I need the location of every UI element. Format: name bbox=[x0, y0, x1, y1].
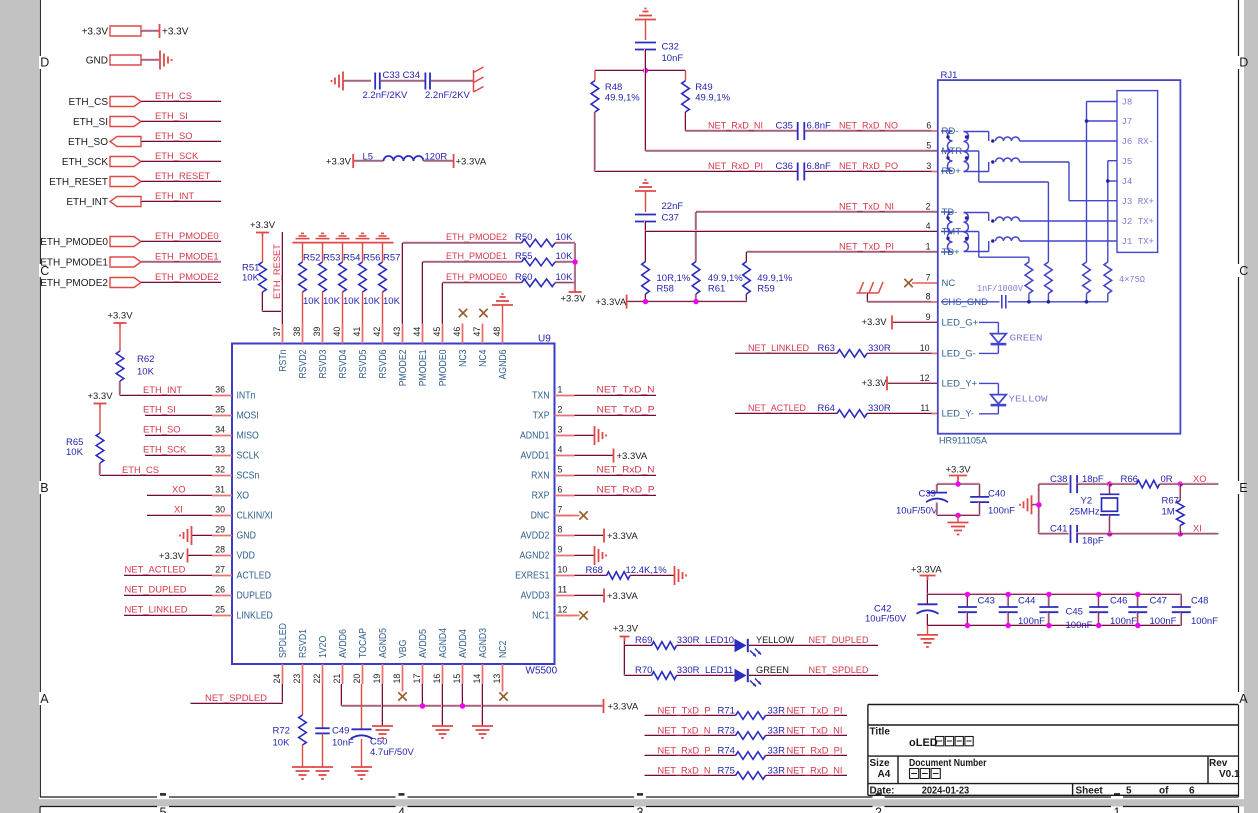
svg-text:J4: J4 bbox=[1122, 177, 1133, 187]
junction C47 bottom bbox=[1135, 623, 1140, 628]
svg-text:C36: C36 bbox=[776, 161, 793, 172]
ground above R57 bbox=[376, 233, 390, 238]
resistor R53 bbox=[319, 262, 327, 292]
resistor R64 bbox=[837, 410, 867, 418]
wire NET_RxD_PI bbox=[595, 171, 797, 172]
svg-text:5: 5 bbox=[160, 806, 167, 813]
svg-text:10K: 10K bbox=[556, 272, 574, 283]
svg-text:EXRES1: EXRES1 bbox=[515, 571, 550, 582]
svg-text:1M: 1M bbox=[1162, 507, 1175, 518]
wire R70 to LED11 bbox=[677, 675, 735, 676]
svg-text:11: 11 bbox=[920, 403, 929, 413]
sheet bottom border bbox=[885, 796, 1112, 798]
svg-text:R63: R63 bbox=[818, 343, 835, 354]
wire to J6 bbox=[1020, 140, 1118, 142]
svg-text:NET_TxD_PI: NET_TxD_PI bbox=[787, 705, 843, 716]
wire LED_Y+ bbox=[888, 382, 938, 383]
svg-text:33: 33 bbox=[215, 445, 225, 456]
R72 bottom lead bbox=[302, 745, 304, 767]
svg-text:PMODE1: PMODE1 bbox=[418, 349, 429, 386]
R56 top lead bbox=[362, 243, 364, 262]
LED LED11 bbox=[735, 669, 762, 687]
wire RX tap to resistor bbox=[1047, 182, 1049, 262]
pin 1 stub bbox=[555, 395, 575, 397]
wire to J2 bbox=[1020, 220, 1118, 222]
choke RX lower bbox=[996, 158, 1020, 162]
svg-text:AGND3: AGND3 bbox=[478, 628, 489, 658]
svg-text:1nF/1000V: 1nF/1000V bbox=[977, 284, 1024, 294]
no-connect RJ1 pin7 bbox=[904, 279, 912, 287]
sheet border right bbox=[1238, 705, 1240, 797]
svg-text:25: 25 bbox=[215, 605, 225, 616]
svg-text:HR911105A: HR911105A bbox=[939, 436, 988, 447]
wire TD- into winding bbox=[941, 211, 953, 213]
C45 bottom lead bbox=[1048, 612, 1049, 625]
svg-text:+3.3VA: +3.3VA bbox=[608, 702, 639, 713]
svg-text:LED10: LED10 bbox=[705, 635, 734, 646]
pin 43 stub bbox=[402, 324, 404, 344]
ground under R72 bbox=[292, 767, 313, 779]
svg-text:23: 23 bbox=[292, 674, 303, 684]
ground above C37 bbox=[635, 180, 656, 191]
wire R49 down bbox=[685, 112, 686, 131]
wire NET_SPDLED bbox=[191, 703, 283, 704]
port ETH_SI bbox=[110, 117, 141, 127]
wire TX tap down bbox=[978, 232, 980, 258]
pin 36 stub bbox=[212, 395, 232, 397]
svg-text:PMODE2: PMODE2 bbox=[398, 350, 409, 387]
sheet border right bbox=[1238, 69, 1240, 264]
wire LED YELLOW anode bbox=[979, 382, 998, 384]
wire AVDD4 down bbox=[462, 684, 463, 706]
power bbox=[453, 154, 455, 168]
junction R61 rail bbox=[693, 299, 698, 304]
svg-text:NET_ACTLED: NET_ACTLED bbox=[125, 564, 186, 575]
ground above C32 bbox=[635, 9, 656, 20]
wire R55 to +3.3V bbox=[555, 261, 575, 262]
wire R59 up bbox=[746, 252, 747, 262]
C49 bottom lead bbox=[322, 734, 324, 767]
wire RX+ route bbox=[1020, 161, 1070, 163]
svg-text:C32: C32 bbox=[662, 42, 679, 53]
svg-text:C37: C37 bbox=[662, 213, 679, 224]
junction C43 bottom bbox=[965, 623, 970, 628]
wire to TX choke upper bbox=[988, 213, 990, 222]
R54 bottom lead bbox=[342, 292, 344, 324]
svg-text:R49: R49 bbox=[695, 82, 712, 93]
wire R51 to RSTn bbox=[263, 311, 283, 312]
svg-text:R75: R75 bbox=[718, 766, 735, 777]
svg-text:RXN: RXN bbox=[531, 471, 549, 482]
svg-text:+3.3V: +3.3V bbox=[82, 27, 109, 38]
wire ETH_INT bbox=[141, 201, 221, 202]
resistor 75R bbox=[1083, 262, 1091, 294]
wire SPDLED down bbox=[282, 684, 283, 704]
svg-text:SCSn: SCSn bbox=[237, 471, 260, 482]
svg-text:NET_RxD_NO: NET_RxD_NO bbox=[839, 120, 898, 131]
svg-text:R74: R74 bbox=[718, 746, 735, 757]
svg-text:C46: C46 bbox=[1110, 596, 1127, 607]
svg-text:TXN: TXN bbox=[532, 391, 549, 402]
R48 top lead bbox=[594, 71, 596, 81]
R72 top lead bbox=[302, 684, 304, 715]
wire RD+ into winding bbox=[941, 170, 953, 172]
svg-text:AVDD2: AVDD2 bbox=[521, 531, 550, 542]
pin 8 stub bbox=[555, 535, 575, 537]
pin 19 stub bbox=[382, 664, 384, 684]
wire ETH_SO bbox=[141, 141, 221, 142]
C48 bottom lead bbox=[1180, 612, 1181, 625]
wire NET_RxD_PO bbox=[805, 171, 932, 172]
svg-text:GND: GND bbox=[86, 56, 108, 67]
C44 top lead bbox=[1007, 594, 1008, 606]
resistor 75R bbox=[1045, 262, 1053, 294]
svg-text:R62: R62 bbox=[137, 354, 154, 365]
svg-text:2: 2 bbox=[875, 806, 882, 813]
pin stub bbox=[932, 352, 938, 354]
svg-text:ETH_PMODE1: ETH_PMODE1 bbox=[446, 250, 507, 261]
capacitor C38 bbox=[1071, 475, 1078, 493]
svg-text:8: 8 bbox=[926, 292, 931, 302]
pin 21 stub bbox=[342, 664, 344, 684]
resistor R48 bbox=[591, 81, 599, 112]
svg-text:LINKLED: LINKLED bbox=[237, 611, 273, 622]
pin 46 stub bbox=[462, 324, 464, 344]
ground right of GND port bbox=[160, 51, 172, 70]
wire NET_RxD_NI bbox=[686, 130, 798, 131]
wire ETH_SCK bbox=[145, 455, 212, 456]
svg-text:C38: C38 bbox=[1050, 474, 1067, 485]
svg-text:100nF: 100nF bbox=[1066, 620, 1093, 631]
svg-text:ETH_INT: ETH_INT bbox=[155, 190, 194, 201]
svg-text:4: 4 bbox=[398, 806, 405, 813]
pin 25 stub bbox=[212, 615, 232, 617]
resistor R52 bbox=[299, 262, 307, 292]
svg-text:DUPLED: DUPLED bbox=[237, 591, 272, 602]
svg-text:MISO: MISO bbox=[237, 431, 260, 442]
svg-text:15: 15 bbox=[452, 674, 463, 684]
ground AGND5 bbox=[372, 726, 393, 738]
port ETH_RESET bbox=[110, 177, 141, 187]
svg-text:GREEN: GREEN bbox=[1010, 333, 1043, 343]
wire LED YELLOW cathode bbox=[979, 413, 998, 415]
svg-text:NET_TxD_N: NET_TxD_N bbox=[658, 725, 711, 736]
svg-text:10K: 10K bbox=[343, 296, 361, 307]
wire LED supply vertical bbox=[624, 641, 625, 676]
svg-text:3: 3 bbox=[637, 806, 644, 813]
pin 23 stub bbox=[302, 664, 304, 684]
svg-text:ETH_SI: ETH_SI bbox=[143, 404, 176, 415]
wire ETH_PMODE0 vertical bbox=[442, 283, 443, 324]
wire R62 to INTn bbox=[119, 381, 120, 396]
junction C44 top bbox=[1006, 592, 1011, 597]
wire RX sec bottom bbox=[964, 171, 989, 173]
ground rail above R52-R57 bbox=[292, 242, 393, 244]
svg-text:Size: Size bbox=[870, 758, 890, 769]
wire AGND3 down bbox=[482, 684, 483, 726]
polarity dot bbox=[991, 239, 994, 242]
svg-text:MOSI: MOSI bbox=[237, 411, 259, 422]
svg-text:GND: GND bbox=[237, 531, 256, 542]
svg-text:ETH_PMODE2: ETH_PMODE2 bbox=[40, 278, 108, 289]
lead bbox=[997, 344, 999, 353]
sheet border right bbox=[1238, 494, 1240, 692]
junction J7 tie bbox=[1085, 119, 1089, 123]
resistor R75 bbox=[736, 772, 766, 780]
polarity dot bbox=[946, 237, 949, 240]
svg-text:32: 32 bbox=[215, 465, 225, 476]
svg-text:B: B bbox=[40, 481, 48, 495]
wire ETH_INT bbox=[120, 395, 212, 396]
svg-text:11: 11 bbox=[558, 585, 568, 596]
port ETH_SO bbox=[110, 137, 141, 147]
ground crystal bbox=[1020, 495, 1032, 514]
pin 16 stub bbox=[442, 664, 444, 684]
pin 11 stub bbox=[555, 595, 575, 597]
sheet border right bbox=[1238, 0, 1240, 56]
wire J8 bbox=[1087, 101, 1118, 103]
resistor R58 bbox=[642, 262, 650, 295]
wire ETH_PMODE1 bbox=[141, 261, 221, 262]
svg-text:RJ1: RJ1 bbox=[941, 70, 958, 81]
svg-text:NET_RxD_NI: NET_RxD_NI bbox=[787, 765, 843, 776]
AGND6 lead bbox=[502, 305, 504, 324]
op-chip U9 W5500 body bbox=[232, 344, 555, 665]
capacitor C41 bbox=[1071, 525, 1078, 543]
wire RJ1 pin4 bbox=[646, 231, 938, 232]
svg-text:R52: R52 bbox=[303, 253, 320, 264]
svg-text:LED_G-: LED_G- bbox=[942, 349, 976, 360]
resistor R66 bbox=[1137, 480, 1160, 488]
R53 bottom lead bbox=[322, 292, 324, 324]
polarity dot bbox=[965, 156, 968, 159]
junction Y2 bottom bbox=[1107, 531, 1112, 536]
svg-text:48: 48 bbox=[492, 327, 503, 337]
pin stub bbox=[932, 413, 938, 415]
pin 34 stub bbox=[212, 435, 232, 437]
svg-text:14: 14 bbox=[472, 673, 483, 683]
wire ground to crystal net bbox=[1032, 504, 1039, 505]
svg-text:6: 6 bbox=[926, 121, 931, 131]
svg-text:38: 38 bbox=[292, 327, 303, 337]
svg-text:100nF: 100nF bbox=[1018, 616, 1045, 627]
pin 27 stub bbox=[212, 575, 232, 577]
resistor R61 bbox=[692, 262, 700, 295]
resistor R65 bbox=[96, 433, 104, 463]
ground above R54 bbox=[336, 233, 350, 238]
svg-text:37: 37 bbox=[272, 327, 283, 337]
next sheet left border bbox=[39, 807, 41, 813]
capacitor C47 bbox=[1128, 607, 1147, 612]
svg-text:J1 TX+: J1 TX+ bbox=[1122, 237, 1154, 247]
svg-text:C41: C41 bbox=[1050, 524, 1067, 535]
wire C38 to R66 bbox=[1076, 483, 1109, 484]
pin 29 stub bbox=[212, 535, 232, 537]
junction R58 rail bbox=[643, 299, 648, 304]
wire RX sec top bbox=[964, 131, 989, 133]
svg-text:XI: XI bbox=[174, 504, 183, 515]
wire NET_RxD_NO bbox=[805, 130, 932, 131]
wire AGND2 bbox=[575, 555, 595, 556]
wire NET_RxD_N bbox=[575, 475, 657, 476]
polarity dot bbox=[991, 219, 994, 222]
pin 40 stub bbox=[342, 324, 344, 344]
no-connect DNC bbox=[579, 511, 587, 519]
Y2 bottom lead bbox=[1109, 515, 1110, 534]
wire TX sec bottom bbox=[964, 251, 989, 253]
wire R60 to +3.3V bbox=[555, 282, 575, 283]
no-connect NC4 bbox=[479, 309, 487, 317]
svg-text:100nF: 100nF bbox=[988, 506, 1015, 517]
svg-text:ETH_SO: ETH_SO bbox=[68, 137, 108, 148]
pin 26 stub bbox=[212, 595, 232, 597]
svg-text:10R,1%: 10R,1% bbox=[657, 273, 691, 284]
capacitor C43 bbox=[958, 607, 977, 612]
junction Y2 top bbox=[1107, 481, 1112, 486]
C42 top lead bbox=[927, 594, 928, 604]
wire EXRES1 bbox=[575, 575, 607, 576]
ground above R56 bbox=[356, 233, 370, 238]
svg-text:AVDD5: AVDD5 bbox=[418, 629, 429, 658]
svg-text:+3.3VA: +3.3VA bbox=[456, 157, 487, 168]
next sheet border bbox=[169, 806, 396, 808]
svg-text:42: 42 bbox=[372, 327, 383, 337]
svg-text:8: 8 bbox=[558, 525, 563, 536]
svg-text:10K: 10K bbox=[556, 232, 574, 243]
wire bbox=[431, 80, 474, 81]
pin 32 stub bbox=[212, 475, 232, 477]
transformer RX secondary winding bbox=[964, 132, 969, 172]
svg-text:VDD: VDD bbox=[237, 551, 255, 562]
next sheet right border bbox=[1238, 807, 1240, 813]
svg-text:22: 22 bbox=[312, 674, 323, 684]
wire TD+ into winding bbox=[941, 251, 953, 253]
junction crystal ground bbox=[1036, 502, 1041, 507]
port ETH_PMODE0 bbox=[110, 237, 141, 247]
ground under C50 bbox=[351, 767, 372, 779]
power bbox=[626, 295, 628, 309]
RJ1 inner jack box bbox=[1117, 91, 1158, 253]
svg-text:+3.3V: +3.3V bbox=[159, 551, 185, 562]
svg-text:NET_LINKLED: NET_LINKLED bbox=[125, 604, 188, 615]
wire NET_RxD_P bbox=[645, 755, 736, 756]
svg-text:1: 1 bbox=[926, 242, 931, 252]
wire XI out bbox=[1180, 533, 1218, 534]
svg-text:10K: 10K bbox=[66, 447, 84, 458]
svg-text:CHS_GND: CHS_GND bbox=[942, 297, 989, 308]
transformer TX secondary winding bbox=[964, 213, 969, 252]
svg-text:49.9,1%: 49.9,1% bbox=[605, 93, 640, 104]
svg-text:R70: R70 bbox=[635, 665, 652, 676]
wire NET_RxD_P bbox=[575, 495, 657, 496]
pin 33 stub bbox=[212, 455, 232, 457]
junction C43 top bbox=[965, 592, 970, 597]
C43 top lead bbox=[966, 594, 967, 606]
svg-text:oLED: oLED bbox=[909, 737, 938, 749]
resistor R62 bbox=[116, 351, 124, 381]
capacitor C35 bbox=[798, 122, 805, 140]
junction XO bbox=[1178, 481, 1183, 486]
no-connect VBG bbox=[398, 692, 406, 700]
svg-text:AVDD1: AVDD1 bbox=[521, 451, 550, 462]
svg-text:RSVD5: RSVD5 bbox=[358, 349, 369, 378]
port ETH_CS bbox=[110, 97, 141, 107]
C40 bottom lead bbox=[979, 502, 980, 515]
ground above R52 bbox=[296, 233, 310, 238]
pin 2 stub bbox=[555, 415, 575, 417]
pin 39 stub bbox=[322, 324, 324, 344]
svg-text:XO: XO bbox=[237, 491, 250, 502]
choke TX upper bbox=[996, 217, 1020, 221]
75R lead bbox=[1107, 294, 1109, 302]
svg-text:ETH_RESET: ETH_RESET bbox=[271, 244, 282, 299]
wire bbox=[141, 30, 159, 31]
svg-text:7: 7 bbox=[926, 273, 931, 283]
wire bbox=[1110, 483, 1137, 484]
svg-text:NET_TxD_P: NET_TxD_P bbox=[597, 404, 655, 415]
pin 4 stub bbox=[555, 455, 575, 457]
stem bbox=[927, 580, 928, 594]
svg-text:+3.3V: +3.3V bbox=[87, 391, 113, 402]
wire NET_LINKLED bbox=[735, 352, 837, 353]
svg-text:R57: R57 bbox=[383, 253, 400, 264]
power bbox=[187, 549, 189, 563]
wire XO row bbox=[1039, 483, 1069, 484]
wire NET_ACTLED bbox=[124, 575, 212, 576]
svg-text:100nF: 100nF bbox=[1110, 616, 1137, 627]
svg-text:RSVD4: RSVD4 bbox=[338, 349, 349, 378]
svg-text:NET_DUPLED: NET_DUPLED bbox=[809, 634, 869, 645]
wire J7 bbox=[1087, 120, 1118, 122]
resistor R59 bbox=[743, 262, 751, 295]
wire LED GREEN anode bbox=[979, 321, 998, 323]
svg-text:ETH_SCK: ETH_SCK bbox=[155, 150, 199, 161]
capacitor C34 bbox=[425, 73, 430, 90]
ground left of C33 bbox=[332, 72, 344, 91]
capacitor C49 bbox=[315, 728, 329, 733]
pin 5 stub bbox=[555, 475, 575, 477]
svg-text:D: D bbox=[40, 56, 49, 70]
R59 to rail bbox=[746, 294, 747, 302]
svg-text:YELLOW: YELLOW bbox=[1009, 394, 1049, 404]
svg-text:R48: R48 bbox=[605, 82, 622, 93]
crystal Y2 bbox=[1100, 494, 1120, 515]
junction C45 top bbox=[1046, 592, 1051, 597]
wire ETH_PMODE2 bbox=[403, 242, 522, 243]
junction 75R bbox=[1047, 300, 1051, 304]
svg-text:ETH_RESET: ETH_RESET bbox=[49, 177, 108, 188]
sheet bottom border bbox=[646, 796, 873, 798]
wire CHS_GND rail bbox=[941, 301, 1000, 303]
svg-text:NET_SPDLED: NET_SPDLED bbox=[205, 692, 267, 703]
LED GREEN bbox=[991, 334, 1007, 345]
resistor R72 bbox=[299, 715, 307, 745]
svg-text:J2 TX+: J2 TX+ bbox=[1122, 217, 1154, 227]
wire RX tap across bbox=[979, 181, 1049, 183]
lead bbox=[997, 322, 999, 333]
C46 bottom lead bbox=[1098, 612, 1099, 625]
svg-text:AVDD3: AVDD3 bbox=[521, 591, 550, 602]
svg-text:17: 17 bbox=[412, 674, 423, 684]
svg-text:100nF: 100nF bbox=[1150, 616, 1177, 627]
svg-text:10K: 10K bbox=[303, 296, 321, 307]
svg-text:21: 21 bbox=[332, 674, 343, 684]
C45 top lead bbox=[1048, 594, 1049, 606]
svg-text:ETH_SCK: ETH_SCK bbox=[143, 444, 187, 455]
C39 top lead bbox=[936, 484, 937, 493]
wire to R69 bbox=[625, 645, 652, 646]
wire ETH_PMODE2 bbox=[141, 282, 221, 283]
